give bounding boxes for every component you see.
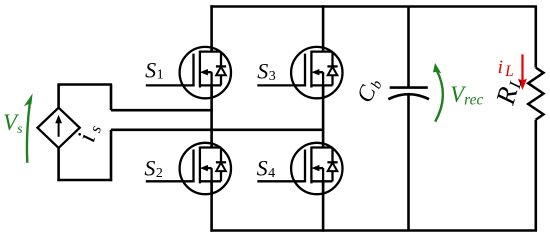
Vrec green arc arrow bbox=[435, 70, 443, 122]
svg-text:Cb: Cb bbox=[352, 74, 386, 107]
Vrec green arrowhead bbox=[433, 63, 441, 74]
wire source loop bottom bbox=[57, 179, 112, 182]
wire capacitor branch lower bbox=[407, 95, 410, 231]
wire diamond top lead bbox=[57, 85, 60, 109]
wire capacitor branch upper bbox=[407, 7, 410, 88]
Vs green arc arrow bbox=[27, 103, 30, 163]
wire source lower stub to right leg midpoint bbox=[111, 129, 324, 132]
wire right leg upper (top rail to S3 drain) bbox=[322, 5, 325, 51]
svg-text:iL: iL bbox=[498, 57, 514, 80]
Vs green arrowhead bbox=[23, 93, 32, 107]
wire diamond bottom lead bbox=[57, 147, 60, 181]
wire source loop top bbox=[57, 83, 112, 86]
current source arrow shaft bbox=[58, 123, 60, 137]
resistor RL zigzag bbox=[528, 68, 543, 120]
wire source loop top-right vertical bbox=[110, 85, 113, 111]
wire right leg lower (S4 source to bottom rail) bbox=[322, 181, 325, 231]
svg-text:S1: S1 bbox=[145, 57, 164, 82]
wire load branch upper bbox=[534, 7, 537, 68]
svg-text:Vrec: Vrec bbox=[450, 82, 483, 109]
wire load branch lower bbox=[534, 120, 537, 231]
svg-text:Vs: Vs bbox=[3, 110, 23, 137]
capacitor Cb curved plate bbox=[388, 94, 429, 99]
wire left leg upper (top rail to S1 drain) bbox=[210, 5, 213, 51]
wire source upper stub to left leg midpoint bbox=[111, 109, 213, 112]
iL red arrowhead bbox=[518, 79, 527, 91]
capacitor Cb top plate bbox=[390, 86, 428, 89]
wire source loop bottom-right vertical bbox=[110, 130, 113, 181]
svg-text:S4: S4 bbox=[257, 156, 276, 181]
transistor S3 bbox=[257, 46, 342, 100]
svg-text:S3: S3 bbox=[257, 59, 276, 84]
transistor S1 bbox=[146, 46, 231, 100]
wire left leg middle (S1 source to S2 drain) bbox=[210, 85, 213, 147]
wire right leg middle (S3 source to S4 drain) bbox=[322, 85, 325, 147]
current source arrowhead bbox=[55, 115, 62, 124]
iL red arrow shaft bbox=[521, 54, 523, 80]
wire bottom rail bbox=[210, 229, 537, 232]
wire top rail bbox=[210, 5, 537, 8]
wire left leg lower (S2 source to bottom rail) bbox=[210, 181, 213, 231]
svg-text:S2: S2 bbox=[144, 156, 163, 181]
controlled current source i_s diamond bbox=[38, 108, 80, 148]
transistor S4 bbox=[257, 142, 342, 196]
svg-text:RL: RL bbox=[490, 73, 527, 108]
transistor S2 bbox=[146, 142, 231, 196]
